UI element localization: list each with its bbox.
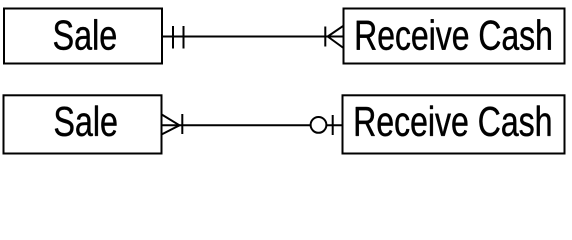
cardinality symbol: zero marker circle (bottom row, Receive Cash end) [311,117,327,133]
entity box Sale (top row) [4,9,162,64]
entity box Sale (bottom row) [4,95,162,153]
cardinality symbol: one-or-many crow's foot + tick at Sale end (bottom row) [162,114,183,135]
cardinality symbol: one tick at Receive Cash end (bottom row) [332,115,334,135]
wire: relationship line Sale to Receive Cash (top row) [162,36,344,38]
entity box Receive Cash (bottom row) [343,95,565,153]
label Receive Cash (bottom row) [356,105,551,136]
label Sale (bottom row) [55,105,117,136]
cardinality symbol: one-or-many tick + crow's foot at Receive Cash end (top row) [325,26,343,48]
entity box Receive Cash (top row) [344,9,565,64]
label Sale (top row) [54,19,116,50]
wire: relationship line Sale to Receive Cash (bottom row) [162,124,343,126]
cardinality symbol: one-and-only-one double ticks at Sale end (top row) [173,26,184,49]
label Receive Cash (top row) [357,19,551,50]
